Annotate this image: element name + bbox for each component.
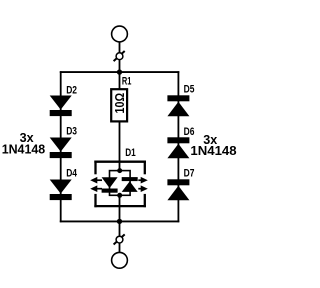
svg-text:1N4148: 1N4148: [2, 141, 46, 156]
svg-text:D1: D1: [125, 147, 136, 159]
connector slash top: [114, 51, 125, 61]
D1 light arrow right lower: [138, 185, 148, 192]
terminal top: [112, 26, 128, 42]
svg-text:1N4148: 1N4148: [190, 143, 236, 158]
connector circle bottom: [116, 236, 123, 243]
svg-text:D5: D5: [184, 83, 195, 95]
node junction top: [117, 69, 122, 74]
svg-text:D7: D7: [184, 168, 195, 180]
connector slash bottom: [114, 234, 125, 244]
diode D3: [50, 138, 72, 159]
svg-text:10Ω: 10Ω: [112, 93, 127, 114]
node junction bottom: [117, 219, 122, 224]
D1 light arrow right upper: [138, 177, 148, 184]
svg-text:D2: D2: [66, 84, 77, 96]
wire connector to bottom terminal: [119, 243, 121, 253]
diode D5: [167, 95, 189, 116]
diode D6: [167, 137, 189, 158]
wire left branch vertical: [60, 71, 62, 222]
diode D4: [50, 180, 72, 201]
LED D1 package outline: [94, 161, 146, 208]
svg-text:R1: R1: [122, 75, 131, 87]
node D1 cathode bottom: [117, 193, 122, 198]
wire bottom rail: [60, 220, 180, 222]
diode D7: [167, 179, 189, 200]
D1 light arrow left upper: [90, 177, 102, 184]
wire top terminal to connector: [119, 42, 121, 53]
svg-text:D6: D6: [184, 126, 195, 138]
svg-text:D3: D3: [66, 126, 77, 138]
wire top rail: [60, 71, 180, 73]
diode D2: [50, 96, 72, 117]
resistor R1 body: [111, 89, 127, 121]
node D1 anode top: [117, 168, 122, 173]
connector circle top: [116, 53, 123, 60]
wire junction to resistor R1 top: [119, 72, 121, 89]
svg-text:D4: D4: [66, 167, 77, 179]
D1 inner connection loop: [110, 171, 131, 196]
wire D1 bottom node to bottom rail: [119, 195, 121, 221]
wire connector to top rail: [119, 60, 121, 73]
wire bottom junction to connector: [119, 221, 121, 236]
D1 light arrow left lower: [90, 185, 102, 192]
D1 right LED chip (up): [122, 177, 138, 192]
wire right branch vertical: [177, 71, 179, 222]
D1 left LED chip (down): [102, 177, 118, 193]
wire resistor bottom to D1 top node: [119, 121, 121, 170]
terminal bottom: [112, 252, 128, 268]
